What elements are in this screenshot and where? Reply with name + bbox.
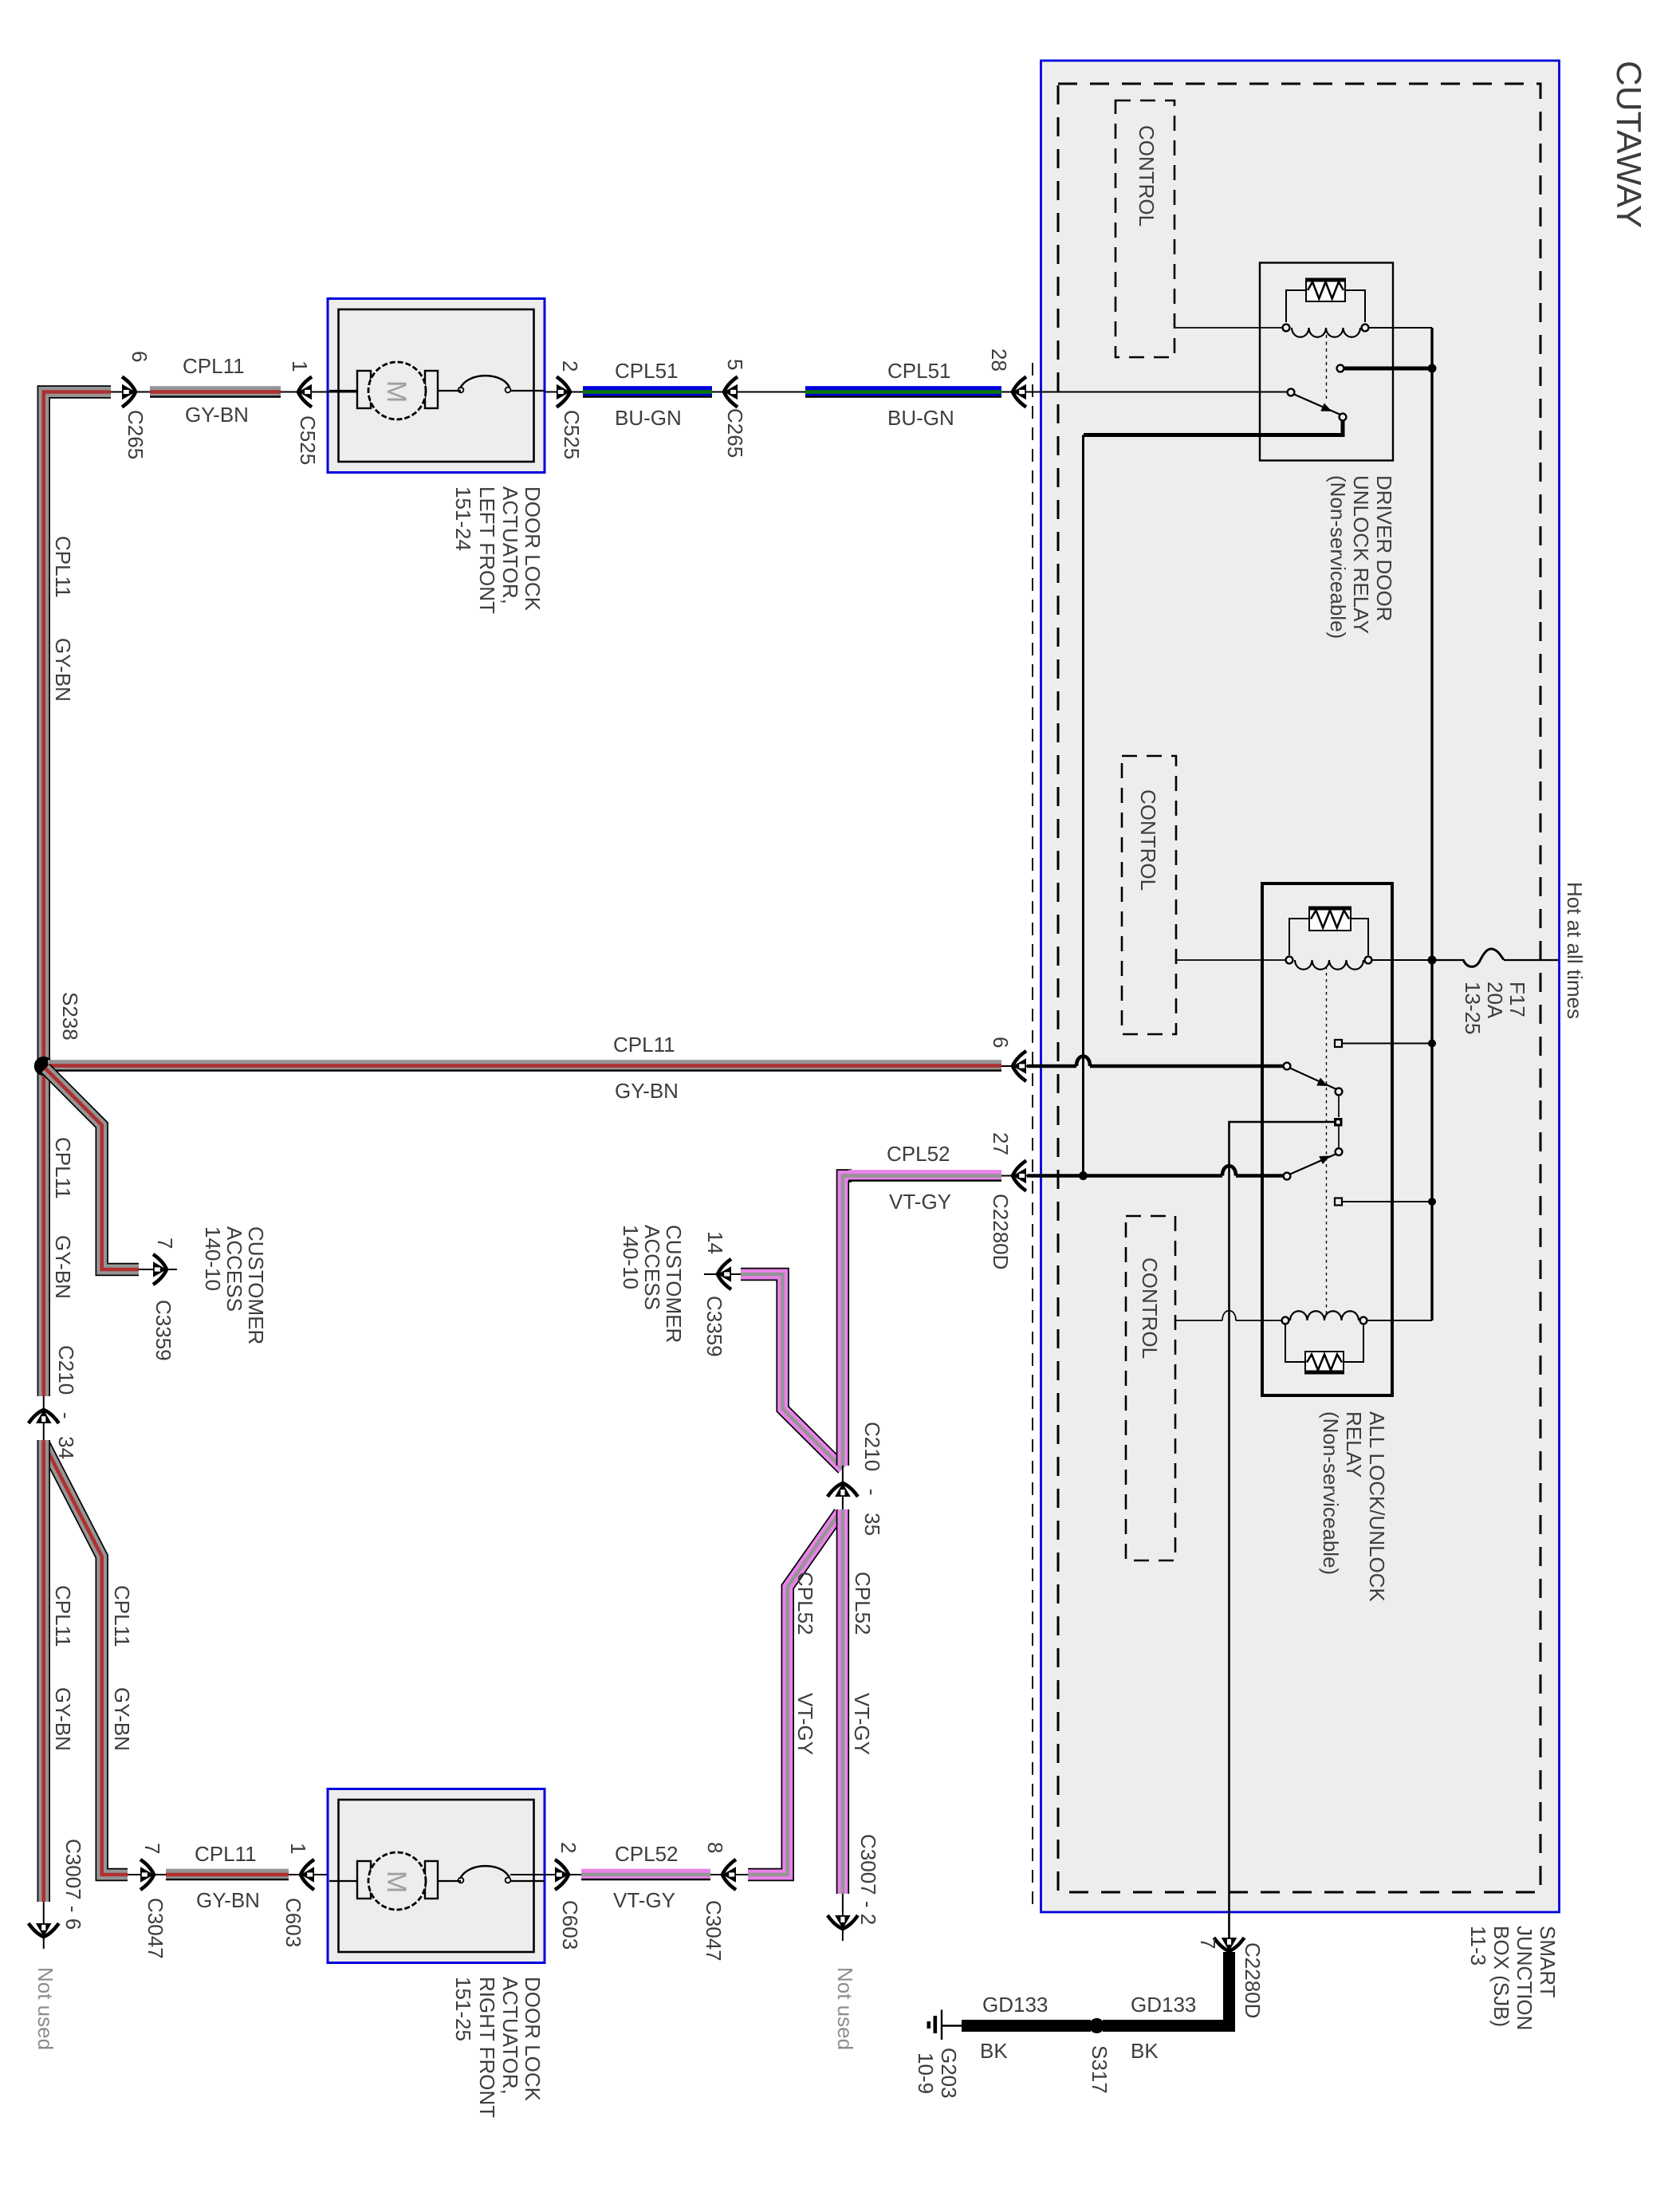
svg-text:CUSTOMER: CUSTOMER: [244, 1226, 268, 1344]
svg-text:CPL11: CPL11: [195, 1842, 257, 1866]
connector arrow C210 - 34: [43, 1396, 45, 1440]
wire - control 1 to relay 1 coil: [1174, 327, 1283, 329]
svg-text:CPL52: CPL52: [615, 1842, 679, 1866]
connector C2280D dashed line: [1032, 363, 1033, 1911]
svg-text:10-9: 10-9: [914, 2052, 938, 2094]
relay 2 unlock coil: [1290, 1311, 1359, 1320]
svg-text:SMART: SMART: [1536, 1926, 1560, 1998]
svg-text:CPL11: CPL11: [51, 536, 75, 598]
svg-text:11-3: 11-3: [1466, 1926, 1490, 1966]
svg-text:GY-BN: GY-BN: [110, 1687, 134, 1751]
node - bus/fuse junction: [1428, 956, 1437, 965]
ground G203 symbol: [942, 2025, 962, 2026]
svg-text:8: 8: [703, 1842, 727, 1853]
svg-text:DOOR LOCK: DOOR LOCK: [521, 1977, 545, 2102]
svg-text:C3007 - 2: C3007 - 2: [856, 1834, 880, 1925]
wire - control 2 to relay 2 lock coil: [1176, 959, 1286, 961]
svg-text:VT-GY: VT-GY: [793, 1693, 817, 1755]
relay K1 driver door unlock relay box: [1260, 263, 1393, 461]
connector arrow C210 - 35: [842, 1466, 844, 1509]
svg-text:Not used: Not used: [33, 1967, 57, 2050]
svg-text:C3007 - 6: C3007 - 6: [61, 1839, 85, 1930]
wire - SJB internal feed bus: [1430, 328, 1433, 1320]
svg-text:6: 6: [989, 1037, 1013, 1048]
connector arrow C525 pin 1: [281, 392, 358, 393]
SJB inner dashed boundary: [1058, 84, 1540, 1892]
svg-text:CPL11: CPL11: [110, 1585, 134, 1647]
wire - battery feed to fuse: [1432, 959, 1464, 961]
svg-text:C3359: C3359: [702, 1296, 726, 1357]
wire GD133 BK horizontal left segment: [962, 2020, 1091, 2032]
svg-text:S317: S317: [1088, 2045, 1111, 2094]
relay 2 pole2 moving contact: [1338, 1127, 1340, 1149]
svg-text:C2280D: C2280D: [1241, 1942, 1265, 2018]
connector arrow C603 pin 2: [510, 1874, 581, 1875]
svg-text:20A: 20A: [1483, 982, 1507, 1019]
resistor R2 (lock coil suppression): [1308, 907, 1351, 931]
svg-text:C2280D: C2280D: [989, 1194, 1013, 1269]
wire CPL52 VT-GY segment C603 to C3047: [581, 1869, 710, 1881]
svg-text:5: 5: [723, 359, 747, 370]
svg-text:CPL51: CPL51: [887, 359, 951, 383]
svg-text:CPL11: CPL11: [51, 1585, 75, 1647]
svg-text:2: 2: [557, 1842, 580, 1853]
svg-text:ACCESS: ACCESS: [640, 1225, 664, 1310]
svg-text:BU-GN: BU-GN: [615, 406, 682, 430]
svg-text:C603: C603: [281, 1898, 305, 1947]
svg-text:C265: C265: [723, 408, 747, 458]
svg-text:BOX (SJB): BOX (SJB): [1489, 1926, 1513, 2027]
wire CPL11 GY-BN corner run down left side: [44, 392, 111, 1397]
wire - relay 1 NO contact to bus (thick): [1344, 367, 1430, 371]
svg-text:G203: G203: [937, 2048, 961, 2099]
svg-text:BK: BK: [1131, 2039, 1159, 2063]
svg-text:ACCESS: ACCESS: [222, 1226, 246, 1312]
wire CPL11 GY-BN segment C3047 to C603: [166, 1869, 289, 1881]
svg-text:ACTUATOR,: ACTUATOR,: [498, 1977, 522, 2095]
svg-text:GY-BN: GY-BN: [185, 403, 249, 427]
relay 2 armature dashed link: [1326, 966, 1328, 1314]
node - bus junction at relay 1: [1428, 364, 1437, 373]
connector arrow C2280D pin 27: [1013, 1161, 1026, 1191]
connector arrow C3007 - 2 not used: [842, 1894, 844, 1941]
wire - unlock coil to bus: [1367, 1320, 1432, 1321]
relay 1 common pivot: [1288, 389, 1295, 396]
svg-text:6: 6: [128, 351, 151, 362]
relay 2 pole1 moving contact: [1336, 1088, 1343, 1096]
connector arrow C2280D pin 28: [1013, 377, 1026, 407]
wire - lock coil to bus: [1371, 959, 1432, 961]
resistor R3 (unlock coil suppression): [1304, 1352, 1344, 1373]
svg-text:C525: C525: [296, 415, 320, 465]
svg-text:CPL52: CPL52: [851, 1572, 875, 1635]
svg-text:(Non-serviceable): (Non-serviceable): [1326, 475, 1350, 639]
svg-text:CONTROL: CONTROL: [1135, 125, 1159, 226]
svg-text:151-25: 151-25: [451, 1977, 475, 2041]
wire GD133 BK from pin 7 down (thick): [1223, 1952, 1235, 2029]
svg-text:C525: C525: [560, 410, 584, 459]
svg-text:2: 2: [558, 360, 582, 372]
control module box 3 (dashed): [1126, 1216, 1175, 1560]
connector arrow C265 pin 5: [712, 392, 805, 393]
connector arrow C3047 pin 8: [710, 1874, 748, 1875]
wire CPL11 GY-BN long horizontal to SJB pin 6: [48, 1060, 1001, 1072]
relay 1 moving contact: [1340, 414, 1347, 421]
connector arrow C3047 pin 7: [128, 1874, 166, 1875]
svg-text:GD133: GD133: [1131, 1993, 1196, 2017]
wire - control 3 to relay 2 unlock coil (with hop): [1175, 1320, 1222, 1321]
wire - SJB pin 27 to relay 2 pole2 pivot (thick, hop): [1027, 1174, 1222, 1178]
svg-text:CPL11: CPL11: [51, 1137, 75, 1199]
splice S238: [34, 1057, 53, 1076]
wire - pole1 NO contact to bus: [1342, 1043, 1429, 1045]
node - bus junction pole2: [1428, 1198, 1436, 1206]
connector arrow C525 pin 2: [510, 392, 583, 393]
connector arrow C3359 pin 14: [704, 1273, 741, 1275]
control module box 2 (dashed): [1122, 756, 1176, 1034]
relay 2 pole2 armature: [1290, 1154, 1336, 1175]
svg-text:VT-GY: VT-GY: [850, 1693, 874, 1755]
motor M1 door lock actuator left front: [328, 299, 545, 473]
svg-text:28: 28: [987, 348, 1011, 372]
svg-text:ALL LOCK/UNLOCK: ALL LOCK/UNLOCK: [1365, 1411, 1389, 1603]
wire - pole2 NO contact to bus: [1342, 1201, 1429, 1202]
connector arrow C265 pin 6: [111, 392, 150, 393]
connector arrow C3007 - 6 not used: [43, 1902, 45, 1949]
svg-text:UNLOCK RELAY: UNLOCK RELAY: [1349, 475, 1373, 634]
svg-text:CPL11: CPL11: [183, 354, 245, 378]
relay 1 armature arm: [1294, 395, 1340, 415]
wire CPL52 VT-GY below C210-35 to C3007-2: [836, 1509, 849, 1894]
svg-text:140-10: 140-10: [201, 1226, 225, 1291]
wire CPL11 GY-BN below C210-34 straight (not used branch): [37, 1440, 50, 1902]
relay 2 center terminal: [1334, 1118, 1343, 1127]
wire CPL51 BU-GN segment SJB to C265: [805, 386, 1001, 398]
svg-text:1: 1: [286, 1843, 310, 1854]
wire - resistor R2 leads: [1289, 919, 1309, 955]
wire CPL11 branch S238 to C3359 (customer access): [45, 1068, 139, 1269]
svg-text:CPL52: CPL52: [793, 1572, 817, 1635]
svg-text:BU-GN: BU-GN: [887, 406, 954, 430]
fuse F17 symbol: [1463, 949, 1504, 966]
wire - resistor R1 leads: [1286, 290, 1306, 322]
svg-text:GY-BN: GY-BN: [615, 1079, 679, 1103]
svg-text:CUTAWAY: CUTAWAY: [1609, 61, 1648, 228]
relay 2 pole1 NO contact terminal: [1335, 1040, 1342, 1047]
node - bus junction pole1: [1428, 1040, 1436, 1048]
svg-text:M: M: [381, 1871, 411, 1893]
svg-text:M: M: [381, 380, 411, 403]
svg-text:GY-BN: GY-BN: [51, 1235, 75, 1299]
relay 1 coil L1: [1292, 328, 1360, 337]
connector arrow C603 pin 1: [289, 1874, 358, 1875]
svg-text:C3047: C3047: [702, 1900, 726, 1962]
wire - fuse to Hot at all times: [1504, 959, 1558, 961]
node - relay1 output joins pin 27 wire: [1079, 1171, 1088, 1180]
svg-text:13-25: 13-25: [1461, 982, 1485, 1035]
svg-text:27: 27: [989, 1132, 1013, 1155]
svg-text:CPL51: CPL51: [615, 359, 679, 383]
svg-text:C3359: C3359: [151, 1300, 175, 1361]
wire - relay 1 output (thick) down and left: [1084, 420, 1343, 435]
svg-text:GY-BN: GY-BN: [51, 638, 75, 702]
wire - coil to bus: [1368, 327, 1432, 329]
svg-text:VT-GY: VT-GY: [889, 1190, 951, 1214]
svg-text:CONTROL: CONTROL: [1136, 789, 1160, 891]
relay 2 pole2 pivot: [1284, 1173, 1291, 1180]
svg-text:BK: BK: [980, 2039, 1008, 2063]
svg-text:DOOR LOCK: DOOR LOCK: [521, 486, 545, 612]
wire CPL51 BU-GN segment C265 to C525: [583, 386, 712, 398]
wire CPL11 GY-BN branch to right front actuator: [44, 1443, 128, 1875]
wire GD133 BK horizontal right segment: [1103, 2020, 1235, 2032]
control module box 1 (dashed): [1115, 100, 1174, 357]
relay 2 pole1 armature: [1290, 1068, 1336, 1090]
svg-text:1: 1: [288, 360, 312, 372]
svg-text:S238: S238: [58, 992, 82, 1041]
svg-text:C210 - 34: C210 - 34: [54, 1345, 78, 1459]
wire CPL52 VT-GY branch to C3359 pin 14: [741, 1274, 843, 1469]
svg-text:7: 7: [140, 1843, 164, 1854]
svg-text:Not used: Not used: [833, 1967, 857, 2050]
svg-text:ACTUATOR,: ACTUATOR,: [498, 486, 522, 604]
wire - resistor R3 leads: [1285, 1324, 1305, 1362]
wire - relay 1 output vertical to CPL52 junction: [1082, 435, 1084, 1176]
connector arrow C2280D pin 7 (bottom): [1214, 1938, 1245, 1951]
svg-text:GY-BN: GY-BN: [51, 1687, 75, 1751]
relay 1 armature dashed link: [1326, 335, 1328, 399]
svg-text:DRIVER DOOR: DRIVER DOOR: [1372, 475, 1396, 621]
svg-text:RELAY: RELAY: [1342, 1411, 1366, 1478]
svg-text:140-10: 140-10: [619, 1225, 643, 1289]
wire - center terminal to SJB pin 7 (ground path): [1230, 1122, 1335, 1952]
svg-text:CPL52: CPL52: [887, 1142, 950, 1166]
smart junction box SJB outline: [1041, 61, 1560, 1912]
svg-text:C210 - 35: C210 - 35: [860, 1422, 884, 1536]
svg-text:Hot at all times: Hot at all times: [1563, 882, 1587, 1019]
svg-text:LEFT FRONT: LEFT FRONT: [475, 486, 499, 614]
svg-text:151-24: 151-24: [451, 486, 475, 551]
svg-text:VT-GY: VT-GY: [613, 1888, 675, 1912]
wire CPL11 GY-BN segment C265 to C525: [150, 386, 281, 398]
svg-text:GY-BN: GY-BN: [196, 1888, 260, 1912]
svg-text:CPL11: CPL11: [613, 1033, 675, 1057]
svg-text:14: 14: [703, 1231, 727, 1254]
svg-text:JUNCTION: JUNCTION: [1513, 1926, 1536, 2030]
splice S317: [1089, 2018, 1104, 2033]
resistor R1 (relay 1 suppression): [1305, 279, 1346, 301]
svg-text:(Non-serviceable): (Non-serviceable): [1319, 1411, 1343, 1575]
relay 2 pole2 NO contact terminal: [1335, 1198, 1342, 1206]
relay 2 lock coil: [1295, 960, 1363, 970]
svg-text:7: 7: [153, 1238, 177, 1249]
connector arrow C3359 pin 7: [139, 1269, 177, 1270]
svg-text:RIGHT FRONT: RIGHT FRONT: [475, 1977, 499, 2118]
svg-text:C3047: C3047: [144, 1898, 167, 1959]
motor M2 door lock actuator right front: [328, 1789, 545, 1963]
svg-text:C603: C603: [558, 1900, 582, 1950]
relay 2 pole1 pivot: [1284, 1063, 1291, 1070]
wire CPL52 VT-GY from C3047 up to C210-35: [748, 1513, 840, 1875]
svg-text:GD133: GD133: [982, 1993, 1048, 2017]
relay 1 NO contact: [1337, 365, 1344, 372]
svg-text:CUSTOMER: CUSTOMER: [662, 1225, 686, 1343]
svg-text:C265: C265: [124, 410, 148, 459]
svg-text:CONTROL: CONTROL: [1138, 1257, 1162, 1359]
svg-text:7: 7: [1196, 1938, 1220, 1949]
svg-text:F17: F17: [1505, 982, 1529, 1017]
connector arrow C2280D pin 6: [1013, 1051, 1026, 1081]
relay K2 all lock/unlock relay box: [1262, 883, 1392, 1395]
wire - SJB pin 28 to relay 1 pivot: [1001, 392, 1288, 393]
wire - SJB pin 6 to relay 2 pole1 pivot (thick, hop): [1027, 1064, 1076, 1068]
wire CPL52 VT-GY from SJB pin 27 down to C210-35: [843, 1176, 852, 1466]
